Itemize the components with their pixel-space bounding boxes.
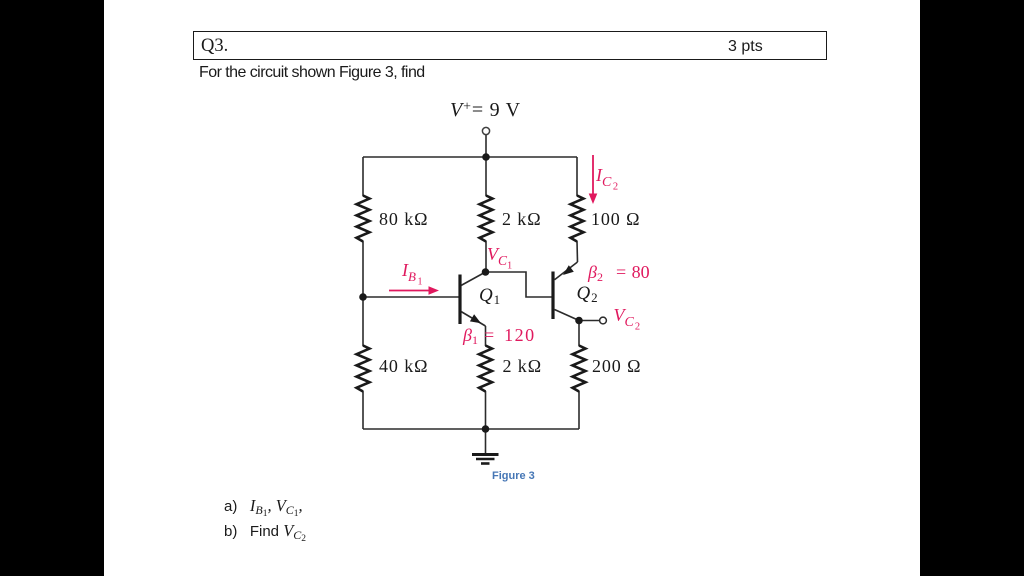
resistor RC1 2 kOhm (480, 196, 493, 242)
node: top supply junction (482, 153, 490, 161)
wire top rail (363, 156, 577, 158)
intro text (199, 64, 425, 82)
svg-text:2 kΩ: 2 kΩ (502, 209, 541, 229)
ground (472, 455, 499, 464)
svg-text:Q1: Q1 (479, 285, 501, 307)
terminal: V+ open circle (482, 127, 489, 134)
node VC1 (482, 268, 490, 276)
question header box (193, 31, 827, 60)
left black sidebar (0, 0, 104, 576)
label Q3. (201, 36, 228, 57)
wire ground stem (485, 429, 487, 453)
wire left branch between 80k and base node (362, 241, 364, 346)
resistor RE1 2 kOhm (479, 346, 492, 392)
item b (224, 521, 306, 541)
svg-text:100 Ω: 100 Ω (591, 209, 640, 229)
wire left branch lower (40k to bottom rail) (362, 391, 364, 429)
svg-text:β1=120: β1=120 (462, 325, 536, 347)
svg-text:VC1: VC1 (487, 244, 512, 272)
resistor RC2 100 Ohm (571, 196, 584, 242)
svg-text:Q2: Q2 (577, 283, 599, 305)
label 3 pts (728, 38, 763, 56)
right black sidebar (920, 0, 1024, 576)
resistor R1 80 kOhm (357, 196, 370, 242)
node: base node B1 (359, 293, 367, 301)
transistor Q1 (npn) (460, 272, 486, 326)
wire bottom rail (363, 428, 579, 430)
current arrow IB1 (389, 286, 439, 295)
wire middle branch (top rail to 2k) (485, 157, 487, 196)
resistor RE2 200 Ohm (573, 346, 586, 392)
wire middle branch lower (2k to bottom rail) (485, 391, 487, 429)
svg-text:Figure 3: Figure 3 (492, 470, 535, 482)
resistor R2 40 kOhm (357, 346, 370, 392)
svg-text:VC2: VC2 (614, 305, 641, 333)
wire right branch upper (top rail to 100) (576, 157, 578, 196)
svg-text:β2=80: β2=80 (587, 262, 650, 284)
svg-text:V+= 9 V: V+= 9 V (450, 99, 521, 121)
svg-text:IB1: IB1 (401, 260, 422, 288)
terminal: VC2 open circle (600, 317, 607, 324)
svg-text:80 kΩ: 80 kΩ (379, 209, 428, 229)
node VC2 (575, 317, 583, 325)
svg-text:2 kΩ: 2 kΩ (503, 356, 542, 376)
node: bottom ground junction (482, 425, 490, 433)
svg-text:200 Ω: 200 Ω (592, 356, 641, 376)
svg-text:IC2: IC2 (595, 165, 618, 193)
wire Q1 emitter to lower 2k (485, 326, 487, 346)
item a (224, 496, 303, 516)
wire V+ terminal to top rail (485, 135, 487, 157)
wire right branch lower (200 ohm to bottom rail) (578, 391, 580, 429)
wire 100 ohm to Q2 emitter bend (576, 241, 579, 262)
wire Q1 base (363, 296, 459, 298)
wire VC1 node to Q2 base jog (486, 272, 552, 297)
current arrow IC2 (589, 155, 598, 204)
svg-text:40 kΩ: 40 kΩ (379, 356, 428, 376)
transistor Q2 (pnp) (553, 262, 579, 321)
wire Q2 collector node down to 200 ohm (578, 321, 580, 347)
wire middle branch (2k to VC1 node) (485, 241, 487, 272)
wire Q2 collector node to VC2 terminal (579, 320, 600, 322)
wire left branch upper (top rail to 80k) (362, 157, 364, 196)
